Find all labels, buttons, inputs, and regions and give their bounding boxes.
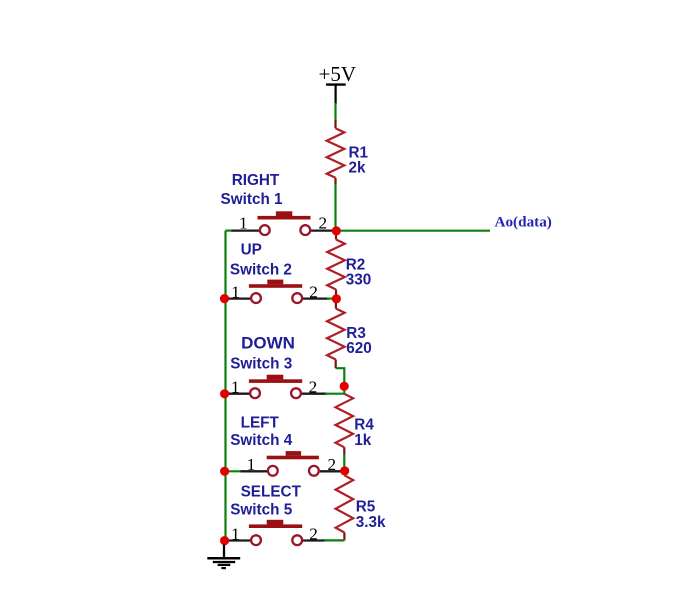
svg-text:2k: 2k: [349, 159, 367, 176]
svg-text:2: 2: [309, 525, 318, 544]
resistor R2: [327, 231, 345, 299]
svg-text:1k: 1k: [354, 432, 372, 449]
svg-text:SELECT: SELECT: [241, 484, 302, 501]
wire LEFT row left: [226, 470, 243, 472]
svg-text:2: 2: [328, 455, 337, 474]
svg-text:3.3k: 3.3k: [356, 514, 386, 531]
svg-text:Ao(data): Ao(data): [495, 213, 552, 230]
resistor R3: [327, 299, 345, 368]
svg-text:+5V: +5V: [319, 62, 357, 86]
svg-text:1: 1: [231, 283, 240, 302]
DOWN row left junction dot: [220, 389, 229, 398]
node A junction dot: [332, 226, 341, 235]
svg-text:330: 330: [346, 272, 372, 289]
wire R1 to node A: [334, 184, 336, 231]
resistor R1: [327, 120, 345, 184]
svg-text:1: 1: [231, 378, 240, 397]
resistor R4: [336, 394, 354, 455]
wire R4 to LEFT node: [343, 455, 345, 469]
svg-text:LEFT: LEFT: [241, 414, 280, 431]
switch S5 (SELECT): [229, 520, 345, 545]
wire R3 jog to DOWN node: [336, 368, 345, 394]
svg-text:1: 1: [231, 525, 240, 544]
LEFT row right junction dot: [340, 466, 349, 475]
svg-text:1: 1: [247, 455, 256, 474]
svg-text:2: 2: [319, 214, 328, 233]
DOWN row right junction dot: [340, 382, 349, 391]
svg-text:RIGHT: RIGHT: [232, 172, 280, 189]
svg-text:DOWN: DOWN: [241, 334, 295, 353]
svg-text:2: 2: [309, 283, 318, 302]
svg-text:R5: R5: [356, 499, 376, 516]
UP row left junction dot: [220, 294, 229, 303]
ground: [207, 545, 240, 569]
svg-text:UP: UP: [241, 242, 262, 259]
svg-text:Switch 5: Switch 5: [230, 501, 293, 518]
+5V power symbol: [326, 85, 346, 104]
switch S2 (UP): [229, 280, 337, 303]
svg-text:Switch 3: Switch 3: [230, 355, 292, 372]
svg-text:620: 620: [346, 340, 372, 357]
UP row right junction dot: [332, 294, 341, 303]
wire node A to Ao(data): [336, 230, 490, 232]
svg-text:Switch 4: Switch 4: [230, 432, 293, 449]
wire +5V to R1: [334, 103, 336, 121]
svg-text:Switch 2: Switch 2: [230, 261, 292, 278]
svg-text:1: 1: [239, 214, 248, 233]
svg-text:Switch 1: Switch 1: [221, 191, 284, 208]
switch S4 (LEFT): [241, 451, 343, 476]
svg-text:2: 2: [309, 378, 318, 397]
LEFT row left junction dot: [220, 467, 229, 476]
wire RIGHT row left: [226, 230, 234, 232]
wire left rail: [224, 231, 226, 541]
resistor R5: [336, 471, 354, 540]
SELECT row left junction dot: [220, 536, 229, 545]
switch S3 (DOWN): [229, 375, 345, 398]
switch S1 (RIGHT): [232, 211, 334, 235]
